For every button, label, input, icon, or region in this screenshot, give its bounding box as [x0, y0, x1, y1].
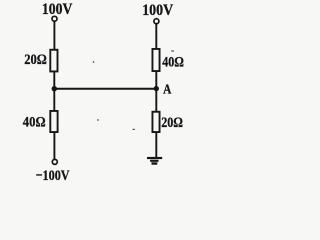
terminal right top	[154, 19, 159, 24]
scan speck 1	[93, 61, 95, 63]
resistor R4 20ohm	[152, 112, 159, 132]
wire	[53, 21, 55, 49]
node junction left	[52, 86, 57, 91]
background paper	[0, 0, 223, 184]
scan speck 3	[97, 119, 99, 121]
resistor R3 40ohm	[152, 49, 159, 71]
wire	[155, 24, 157, 49]
svg-text:20Ω: 20Ω	[161, 114, 183, 131]
scan speck 4	[133, 129, 135, 130]
svg-text:−100V: −100V	[36, 167, 70, 184]
resistor R2 40ohm	[50, 111, 57, 132]
svg-text:A: A	[163, 81, 171, 96]
ground	[147, 158, 162, 164]
wire	[155, 72, 157, 111]
resistor R1 20ohm	[50, 50, 57, 72]
scan speck 2	[171, 50, 174, 51]
svg-text:40Ω: 40Ω	[23, 114, 46, 131]
wire	[53, 72, 55, 110]
terminal left bottom	[52, 159, 57, 164]
node A junction	[154, 86, 159, 91]
terminal left top	[52, 16, 57, 21]
svg-text:40Ω: 40Ω	[162, 54, 184, 71]
svg-text:100V: 100V	[142, 2, 173, 19]
svg-text:20Ω: 20Ω	[24, 51, 47, 68]
wire	[53, 133, 55, 160]
wire horizontal	[54, 88, 156, 90]
svg-text:100V: 100V	[42, 1, 73, 18]
wire	[155, 133, 157, 158]
